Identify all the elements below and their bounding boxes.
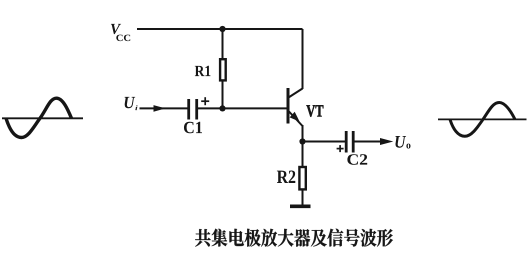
output waveform sine [450, 103, 515, 137]
output waveform axis [438, 118, 527, 120]
wire emitter node to C2 [303, 141, 346, 143]
wire Vcc rail to R1 [222, 29, 224, 58]
caption 共集电极放大器及信号波形 [195, 229, 393, 247]
power label Vcc [111, 24, 130, 41]
capacitor C2 [346, 131, 353, 153]
wire R2 to ground [302, 190, 304, 205]
label Ui [125, 97, 138, 110]
wire emitter node to R2 [302, 142, 304, 167]
input waveform axis [2, 117, 83, 119]
resistor R1 [220, 59, 226, 80]
wire input [140, 107, 188, 109]
junction dot emitter [299, 138, 305, 144]
wire collector to Vcc rail [302, 29, 304, 89]
label R1 [195, 66, 211, 76]
label R2 [277, 171, 295, 184]
label Uo [395, 136, 410, 149]
label C2 [347, 154, 367, 165]
wire emitter down [302, 125, 304, 142]
ground [290, 205, 311, 209]
junction dot base [219, 105, 225, 111]
polarity plus C1 [201, 97, 209, 105]
wire C1 to base [198, 107, 287, 109]
polarity plus C2 [337, 145, 344, 152]
label VT [306, 105, 323, 117]
junction dot Vcc/R1 [219, 26, 225, 32]
arrow output [380, 138, 393, 145]
wire R1 to base node [222, 81, 224, 108]
wire Vcc rail [137, 28, 303, 30]
wire output [355, 141, 390, 143]
capacitor C1 [189, 99, 197, 120]
resistor R2 [299, 167, 305, 189]
arrow input [154, 105, 166, 112]
transistor VT [288, 88, 303, 126]
input waveform sine [6, 98, 72, 137]
label C1 [184, 122, 202, 134]
